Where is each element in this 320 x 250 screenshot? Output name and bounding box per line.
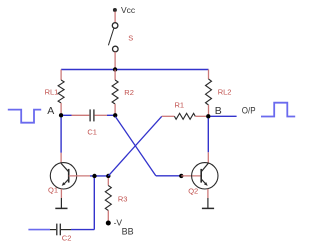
svg-text:A: A — [47, 105, 54, 117]
svg-text:RL1: RL1 — [45, 88, 59, 97]
svg-text:S: S — [128, 34, 133, 43]
svg-text:RL2: RL2 — [218, 88, 232, 97]
svg-text:C1: C1 — [87, 127, 97, 136]
svg-text:R2: R2 — [124, 88, 134, 97]
svg-text:O/P: O/P — [242, 106, 256, 116]
svg-text:R1: R1 — [175, 100, 185, 109]
svg-text:Vcc: Vcc — [121, 5, 136, 15]
svg-text:R3: R3 — [118, 194, 128, 203]
svg-text:Q1: Q1 — [48, 186, 58, 195]
svg-text:B: B — [215, 105, 222, 117]
svg-text:C2: C2 — [62, 234, 72, 243]
svg-text:Q2: Q2 — [188, 186, 198, 195]
svg-text:BB: BB — [122, 227, 134, 237]
